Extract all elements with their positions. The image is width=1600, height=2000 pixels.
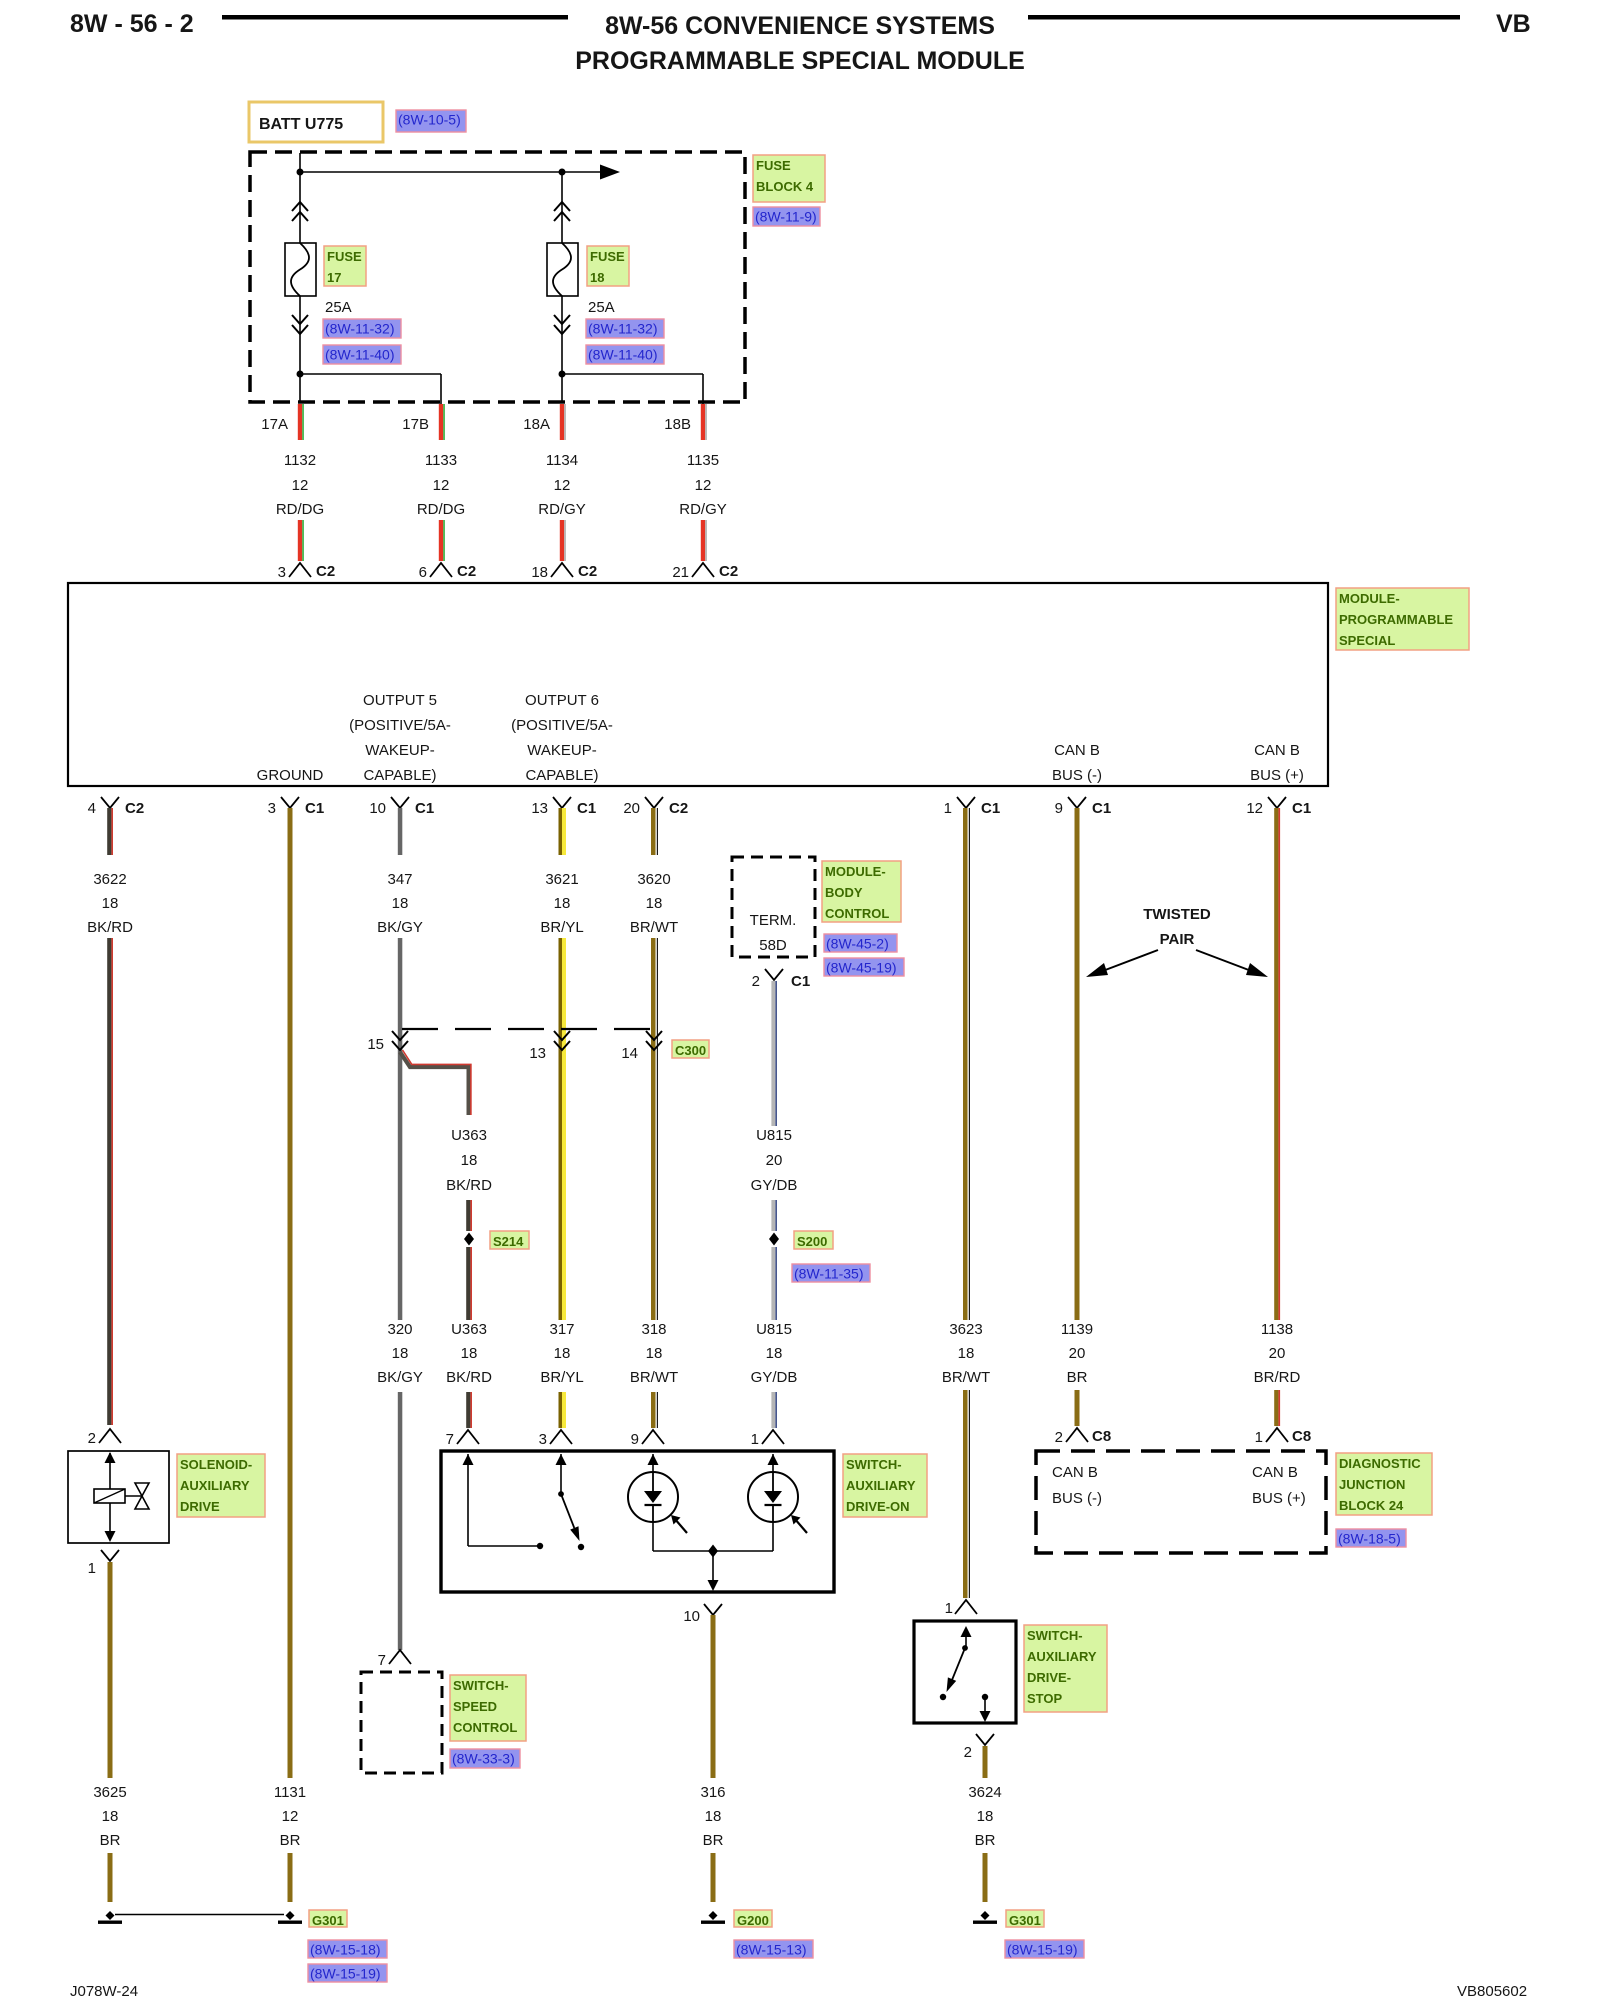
splice S214 [464, 1233, 474, 1246]
svg-text:CAPABLE): CAPABLE) [525, 767, 598, 784]
wire U363 jog from C300 pin 15 [400, 1052, 469, 1115]
svg-text:BUS (+): BUS (+) [1252, 1490, 1306, 1507]
svg-text:(8W-11-40): (8W-11-40) [325, 347, 395, 363]
ground G200 [709, 1911, 718, 1920]
drive-on switch pin 9 internal lead [652, 1454, 654, 1472]
fuse 18 [547, 243, 578, 296]
svg-text:1: 1 [945, 1600, 953, 1617]
svg-text:C1: C1 [1292, 800, 1311, 817]
svg-text:318: 318 [641, 1321, 666, 1338]
svg-text:20: 20 [1069, 1345, 1086, 1362]
svg-text:17B: 17B [402, 416, 429, 433]
svg-text:18: 18 [392, 1345, 409, 1362]
wire stub below pin 4 C2 [107, 808, 111, 855]
svg-text:21: 21 [672, 564, 689, 581]
svg-text:C2: C2 [669, 800, 688, 817]
solenoid - auxiliary drive (box) [68, 1451, 169, 1543]
svg-text:(8W-11-40): (8W-11-40) [588, 347, 658, 363]
wire stub below pin 9 C1 [1075, 808, 1080, 855]
module pin 10 C1 [391, 797, 409, 808]
svg-text:1138: 1138 [1261, 1321, 1293, 1338]
svg-text:C1: C1 [577, 800, 596, 817]
wire 316 segment [711, 1615, 716, 1778]
svg-text:320: 320 [387, 1321, 412, 1338]
connector C1 pin 2 (body control) [765, 969, 783, 980]
svg-text:VB805602: VB805602 [1457, 1983, 1527, 2000]
svg-text:CAN B: CAN B [1054, 742, 1100, 759]
svg-text:1: 1 [88, 1560, 96, 1577]
label G301 left [309, 1910, 347, 1928]
svg-text:RD/DG: RD/DG [276, 501, 324, 518]
svg-text:18: 18 [554, 1345, 571, 1362]
label link 8W-15-19 left [308, 1964, 387, 1982]
svg-text:AUXILIARY: AUXILIARY [180, 1478, 250, 1493]
label SOLENOID-AUXILIARY DRIVE [177, 1454, 265, 1517]
splice S200 [769, 1233, 779, 1246]
LED indicator 1 [628, 1472, 678, 1522]
svg-text:S214: S214 [493, 1234, 524, 1249]
svg-text:6: 6 [419, 564, 427, 581]
off-page connector down (fuse 18) [554, 315, 570, 334]
svg-text:(POSITIVE/5A-: (POSITIVE/5A- [511, 717, 613, 734]
svg-text:13: 13 [529, 1045, 546, 1062]
wire 1139 segment [1075, 855, 1080, 1320]
label MODULE-BODY CONTROL [822, 861, 901, 922]
svg-text:12: 12 [695, 477, 712, 494]
svg-text:PROGRAMMABLE: PROGRAMMABLE [1339, 612, 1453, 627]
valve symbol [125, 1495, 142, 1497]
node fuse 17 output junction [297, 371, 304, 378]
svg-text:STOP: STOP [1027, 1691, 1062, 1706]
svg-text:15: 15 [367, 1036, 384, 1053]
svg-text:C2: C2 [457, 563, 476, 580]
connector C8 pin 2 [1066, 1428, 1088, 1442]
svg-text:316: 316 [700, 1784, 725, 1801]
svg-text:25A: 25A [325, 299, 352, 316]
wire U815 segment [771, 981, 775, 1126]
svg-text:18: 18 [646, 895, 663, 912]
ground G301 right [981, 1911, 990, 1920]
LED output bus [652, 1522, 654, 1551]
svg-text:17A: 17A [261, 416, 288, 433]
svg-text:1135: 1135 [687, 452, 719, 469]
module pin 3 C1 [281, 797, 299, 808]
label MODULE-PROGRAMMABLE SPECIAL [1336, 588, 1469, 650]
svg-text:RD/GY: RD/GY [538, 501, 586, 518]
svg-text:3620: 3620 [637, 871, 670, 888]
svg-text:18A: 18A [523, 416, 550, 433]
label FUSE 18 [587, 246, 629, 286]
svg-text:18B: 18B [664, 416, 691, 433]
LED bus output lead [712, 1551, 714, 1580]
svg-text:DRIVE: DRIVE [180, 1499, 220, 1514]
svg-text:BR: BR [100, 1832, 121, 1849]
svg-text:20: 20 [1269, 1345, 1286, 1362]
wire 3620/318 segment [651, 938, 656, 1320]
svg-text:SOLENOID-: SOLENOID- [180, 1457, 252, 1472]
label link 8W-11-32 right [586, 319, 664, 338]
wire 3624 segment [983, 1746, 988, 1778]
label SWITCH-AUXILIARY DRIVE-STOP [1024, 1625, 1107, 1712]
svg-text:C8: C8 [1092, 1428, 1111, 1445]
off-page connector up (fuse 17 feed) [292, 202, 308, 221]
svg-text:RD/DG: RD/DG [417, 501, 465, 518]
connector pin 3 (drive-on switch) [550, 1430, 572, 1444]
svg-text:13: 13 [531, 800, 548, 817]
svg-text:DRIVE-ON: DRIVE-ON [846, 1499, 910, 1514]
svg-text:(8W-33-3): (8W-33-3) [452, 1751, 515, 1767]
svg-text:12: 12 [554, 477, 571, 494]
svg-text:25A: 25A [588, 299, 615, 316]
svg-text:CAPABLE): CAPABLE) [363, 767, 436, 784]
wire segment to module (rd_dg at x=300) [298, 520, 302, 561]
label SWITCH-AUXILIARY DRIVE-ON [843, 1454, 927, 1517]
svg-text:CAN B: CAN B [1052, 1464, 1098, 1481]
svg-text:CAN B: CAN B [1254, 742, 1300, 759]
svg-text:FUSE: FUSE [756, 158, 791, 173]
switch - auxiliary drive-on (box) [441, 1451, 834, 1592]
svg-text:(8W-15-19): (8W-15-19) [310, 1966, 381, 1982]
svg-text:3625: 3625 [93, 1784, 126, 1801]
svg-text:18: 18 [646, 1345, 663, 1362]
module pin 4 C2 [101, 797, 119, 808]
drive-stop switch output lead [984, 1700, 986, 1712]
wire stub below pin 3 C1 [288, 808, 293, 855]
wire stub below pin 20 C2 [651, 808, 656, 855]
svg-text:BUS (+): BUS (+) [1250, 767, 1304, 784]
svg-text:U815: U815 [756, 1321, 792, 1338]
wire U363 segment 2 [466, 1247, 470, 1320]
svg-text:G200: G200 [737, 1913, 769, 1928]
label S200 [794, 1231, 833, 1249]
svg-text:(8W-18-5): (8W-18-5) [1338, 1531, 1401, 1547]
wire segment to module (rd_gy at x=703) [701, 520, 705, 561]
svg-text:12: 12 [282, 1808, 299, 1825]
svg-text:GY/DB: GY/DB [751, 1369, 798, 1386]
module pin 9 C1 [1068, 797, 1086, 808]
drive-on switch contact b [578, 1544, 584, 1550]
svg-text:BR: BR [1067, 1369, 1088, 1386]
svg-text:3624: 3624 [968, 1784, 1001, 1801]
svg-text:8W - 56 - 2: 8W - 56 - 2 [70, 10, 194, 38]
svg-text:C1: C1 [415, 800, 434, 817]
twisted pair arrow right [1196, 950, 1254, 972]
svg-text:BR/WT: BR/WT [630, 919, 678, 936]
svg-text:8W-56 CONVENIENCE SYSTEMS: 8W-56 CONVENIENCE SYSTEMS [605, 12, 995, 40]
fuse 17 [285, 243, 316, 296]
svg-text:1134: 1134 [546, 452, 578, 469]
wire fuse 18 output split [561, 296, 563, 403]
connector pin 1 (drive-on switch) [762, 1430, 784, 1444]
svg-text:CONTROL: CONTROL [453, 1720, 517, 1735]
svg-text:BR/YL: BR/YL [540, 919, 583, 936]
drive-on switch blade [558, 1491, 564, 1497]
module pin 13 C1 [553, 797, 571, 808]
connector C2 pin 6 [430, 563, 452, 577]
svg-text:U363: U363 [451, 1321, 487, 1338]
svg-text:GROUND: GROUND [257, 767, 324, 784]
wire stub below pin 13 C1 [559, 808, 563, 855]
label G200 [734, 1910, 772, 1928]
svg-text:(8W-15-13): (8W-15-13) [736, 1942, 807, 1958]
wire 1131 lower segment [288, 1853, 293, 1902]
LED 1 light arrow [675, 1519, 688, 1534]
svg-text:317: 317 [549, 1321, 574, 1338]
svg-text:12: 12 [1246, 800, 1263, 817]
label SWITCH-SPEED CONTROL [450, 1675, 526, 1741]
connector C300 pin 15 [392, 1031, 408, 1050]
wire 347/320 segment [398, 938, 403, 1320]
drive-on switch contact a [537, 1543, 543, 1549]
svg-text:18: 18 [766, 1345, 783, 1362]
svg-text:PAIR: PAIR [1160, 931, 1195, 948]
svg-text:(8W-45-19): (8W-45-19) [826, 960, 897, 976]
label link 8W-11-40 left [323, 345, 401, 364]
svg-text:18: 18 [102, 1808, 119, 1825]
wire fuse 17 output split [299, 296, 301, 403]
label link 8W-15-19 right [1005, 1940, 1084, 1958]
svg-text:BK/RD: BK/RD [446, 1369, 492, 1386]
drive-on switch pin 7 internal lead [467, 1454, 469, 1546]
svg-text:3: 3 [539, 1431, 547, 1448]
twisted pair arrow left [1100, 950, 1158, 972]
svg-text:7: 7 [378, 1652, 386, 1669]
battery feed BATT U775 [249, 102, 383, 142]
wire battery bus with arrow [299, 153, 301, 243]
svg-text:WAKEUP-: WAKEUP- [365, 742, 434, 759]
svg-text:18: 18 [705, 1808, 722, 1825]
svg-text:BR/YL: BR/YL [540, 1369, 583, 1386]
svg-text:DIAGNOSTIC: DIAGNOSTIC [1339, 1456, 1421, 1471]
svg-text:U815: U815 [756, 1127, 792, 1144]
svg-text:BR: BR [975, 1832, 996, 1849]
svg-text:14: 14 [621, 1045, 638, 1062]
svg-text:18: 18 [977, 1808, 994, 1825]
svg-text:JUNCTION: JUNCTION [1339, 1477, 1405, 1492]
svg-text:GY/DB: GY/DB [751, 1177, 798, 1194]
connector C300 pin 14 [646, 1031, 662, 1050]
svg-text:RD/GY: RD/GY [679, 501, 727, 518]
connector C300 (dashed) [402, 1028, 654, 1030]
module pin 12 C1 [1268, 797, 1286, 808]
connector pin 7 (drive-on switch) [457, 1430, 479, 1444]
svg-text:9: 9 [631, 1431, 639, 1448]
svg-text:12: 12 [433, 477, 450, 494]
svg-text:10: 10 [369, 800, 386, 817]
svg-text:C1: C1 [1092, 800, 1111, 817]
svg-text:SWITCH-: SWITCH- [846, 1457, 902, 1472]
label link 8W-10-5 [396, 110, 466, 132]
svg-text:20: 20 [623, 800, 640, 817]
svg-text:18: 18 [554, 895, 571, 912]
svg-text:CAN B: CAN B [1252, 1464, 1298, 1481]
svg-text:TWISTED: TWISTED [1143, 906, 1211, 923]
LED indicator 2 [748, 1472, 798, 1522]
solenoid symbol [109, 1453, 111, 1489]
module - body control (TERM. 58D box) [732, 857, 815, 957]
wire 3622 segment [107, 938, 111, 1425]
wire 1131 segment [288, 855, 293, 1778]
svg-text:CONTROL: CONTROL [825, 906, 889, 921]
svg-text:C1: C1 [305, 800, 324, 817]
label G301 right [1006, 1910, 1044, 1928]
wire 3625 lower segment [108, 1853, 113, 1902]
module pin 1 C1 [957, 797, 975, 808]
svg-text:(POSITIVE/5A-: (POSITIVE/5A- [349, 717, 451, 734]
svg-text:2: 2 [88, 1430, 96, 1447]
svg-text:1: 1 [944, 800, 952, 817]
label link 8W-11-9 [753, 207, 820, 226]
svg-text:BK/GY: BK/GY [377, 919, 423, 936]
node LED bus junction [708, 1545, 718, 1558]
svg-text:C300: C300 [675, 1043, 706, 1058]
svg-text:S200: S200 [797, 1234, 827, 1249]
label link 8W-11-32 left [323, 319, 401, 338]
svg-text:BODY: BODY [825, 885, 863, 900]
svg-text:AUXILIARY: AUXILIARY [846, 1478, 916, 1493]
node bus junction A [297, 169, 304, 176]
svg-text:BR/WT: BR/WT [942, 1369, 990, 1386]
svg-text:10: 10 [683, 1608, 700, 1625]
drive-on switch pin 3 internal lead [560, 1454, 562, 1494]
svg-text:SWITCH-: SWITCH- [1027, 1628, 1083, 1643]
drive-stop switch pin 1 lead [965, 1630, 967, 1648]
label link 8W-45-2 [824, 934, 897, 952]
module pin 20 C2 [645, 797, 663, 808]
label link 8W-15-13 [734, 1940, 813, 1958]
svg-text:(8W-10-5): (8W-10-5) [398, 112, 461, 128]
svg-text:G301: G301 [1009, 1913, 1041, 1928]
connector pin 9 (drive-on switch) [642, 1430, 664, 1444]
label link 8W-15-18 [308, 1940, 387, 1958]
wire segment to module (rd_dg at x=441) [439, 520, 443, 561]
ground bond wire [115, 1914, 284, 1916]
svg-text:1: 1 [751, 1431, 759, 1448]
header rule left [222, 15, 568, 20]
svg-text:DRIVE-: DRIVE- [1027, 1670, 1071, 1685]
label S214 [490, 1231, 529, 1249]
label link 8W-33-3 [450, 1749, 520, 1768]
drive-on switch pin 1 internal lead [772, 1454, 774, 1472]
label link 8W-18-5 [1336, 1529, 1406, 1547]
wire 3623 segment [963, 855, 968, 1320]
wire stub below pin 12 C1 [1274, 808, 1278, 855]
wire U815 segment 3 [771, 1247, 775, 1320]
svg-text:MODULE-: MODULE- [1339, 591, 1400, 606]
wire to fuse 18 [561, 172, 563, 243]
svg-text:1139: 1139 [1061, 1321, 1093, 1338]
svg-text:18: 18 [392, 895, 409, 912]
connector pin 10 (drive-on switch output) [704, 1604, 722, 1615]
connector pin 1 (drive-stop switch) [955, 1600, 977, 1614]
wire U815 segment 2 [771, 1200, 775, 1231]
connector pin 1 (solenoid) [101, 1550, 119, 1561]
svg-text:(8W-11-32): (8W-11-32) [588, 321, 658, 337]
svg-text:BR: BR [703, 1832, 724, 1849]
svg-text:BK/RD: BK/RD [87, 919, 133, 936]
svg-text:TERM.: TERM. [750, 912, 797, 929]
wire 316 lower segment [711, 1853, 716, 1902]
wire U815 segment 4 [771, 1392, 775, 1428]
svg-text:18: 18 [958, 1345, 975, 1362]
svg-text:3622: 3622 [93, 871, 126, 888]
off-page connector up (fuse 18 feed) [554, 202, 570, 221]
svg-text:18: 18 [461, 1345, 478, 1362]
wire stub below pin 10 C1 [398, 808, 403, 855]
header rule right [1028, 15, 1460, 20]
svg-text:C1: C1 [791, 973, 810, 990]
fuse block 4 enclosure [250, 152, 745, 402]
switch - speed control (box) [361, 1672, 442, 1773]
svg-text:C2: C2 [719, 563, 738, 580]
svg-text:4: 4 [88, 800, 96, 817]
svg-text:G301: G301 [312, 1913, 344, 1928]
svg-text:OUTPUT 6: OUTPUT 6 [525, 692, 599, 709]
connector C2 pin 3 [289, 563, 311, 577]
svg-text:FUSE: FUSE [590, 249, 625, 264]
svg-text:BK/RD: BK/RD [446, 1177, 492, 1194]
LED 2 light arrow [795, 1519, 808, 1534]
connector C2 pin 18 [551, 563, 573, 577]
node fuse 18 output junction [559, 371, 566, 378]
wire U363 segment 3 [466, 1392, 470, 1428]
connector C8 pin 1 [1266, 1428, 1288, 1442]
svg-text:C2: C2 [316, 563, 335, 580]
wire 3624 lower segment [983, 1853, 988, 1902]
label link 8W-11-35 [792, 1264, 870, 1282]
svg-text:(8W-15-19): (8W-15-19) [1007, 1942, 1078, 1958]
svg-text:7: 7 [446, 1431, 454, 1448]
svg-text:(8W-15-18): (8W-15-18) [310, 1942, 381, 1958]
label link 8W-11-40 right [586, 345, 664, 364]
svg-text:C8: C8 [1292, 1428, 1311, 1445]
svg-text:BLOCK 24: BLOCK 24 [1339, 1498, 1404, 1513]
connector C2 pin 21 [692, 563, 714, 577]
wire 3621/317 segment [559, 938, 563, 1320]
svg-text:SPECIAL: SPECIAL [1339, 633, 1395, 648]
svg-text:WAKEUP-: WAKEUP- [527, 742, 596, 759]
svg-text:58D: 58D [759, 937, 787, 954]
svg-text:18: 18 [531, 564, 548, 581]
svg-text:SPEED: SPEED [453, 1699, 497, 1714]
svg-text:U363: U363 [451, 1127, 487, 1144]
wire 1138 segment [1274, 855, 1278, 1320]
svg-text:J078W-24: J078W-24 [70, 1983, 138, 2000]
svg-text:3: 3 [268, 800, 276, 817]
svg-text:FUSE: FUSE [327, 249, 362, 264]
svg-text:SWITCH-: SWITCH- [453, 1678, 509, 1693]
svg-text:AUXILIARY: AUXILIARY [1027, 1649, 1097, 1664]
svg-text:3621: 3621 [545, 871, 578, 888]
wire 3625 segment [108, 1562, 113, 1778]
wire stub below pin 1 C1 [963, 808, 968, 855]
label link 8W-45-19 [824, 958, 904, 976]
svg-text:BUS (-): BUS (-) [1052, 767, 1102, 784]
svg-text:(8W-11-9): (8W-11-9) [755, 209, 817, 225]
svg-text:BATT U775: BATT U775 [259, 116, 343, 133]
wire U363 segment [466, 1200, 470, 1231]
drive-stop switch contact right [982, 1694, 988, 1700]
svg-text:BR/RD: BR/RD [1254, 1369, 1301, 1386]
svg-text:20: 20 [766, 1152, 783, 1169]
svg-text:2: 2 [964, 1744, 972, 1761]
connector pin 7 (speed control) [389, 1650, 411, 1664]
svg-text:1: 1 [1255, 1429, 1263, 1446]
svg-text:1132: 1132 [284, 452, 316, 469]
svg-text:BR/WT: BR/WT [630, 1369, 678, 1386]
connector pin 2 (drive-stop switch) [976, 1734, 994, 1745]
label DIAGNOSTIC JUNCTION BLOCK 24 [1336, 1453, 1432, 1515]
